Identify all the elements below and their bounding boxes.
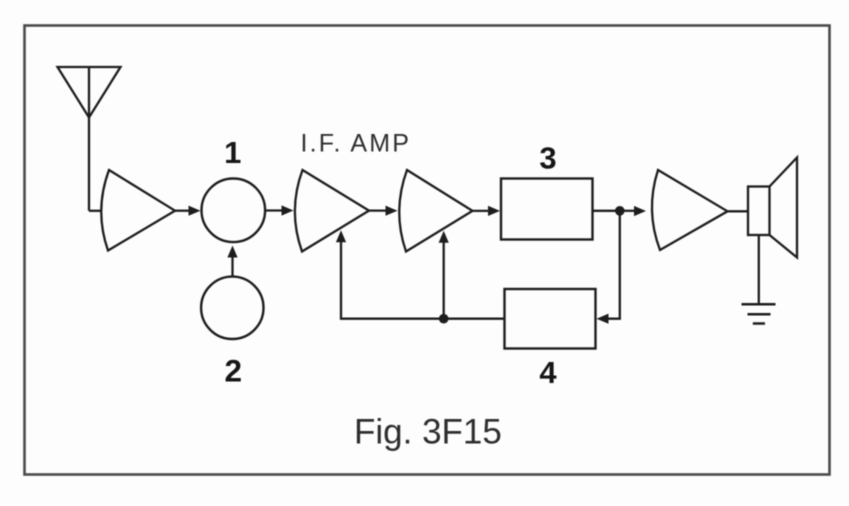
svg-text:4: 4 xyxy=(539,355,557,390)
RF amplifier xyxy=(101,170,175,251)
arrowhead up into IF amp2 xyxy=(439,231,449,243)
oscillator circle, node 2 xyxy=(201,277,263,339)
arrowhead up into IF amp1 xyxy=(336,230,346,242)
block 3 (detector) xyxy=(501,179,593,240)
IF amplifier 1 xyxy=(295,170,369,252)
IF amplifier 2 xyxy=(399,170,472,252)
feedback wire junction down to block4, arrowhead left xyxy=(597,211,620,324)
wire block3 to junction xyxy=(593,210,620,212)
wire IF amp1 to IF amp2, arrowhead xyxy=(369,206,398,216)
wire junction to audio amp, arrowhead xyxy=(620,206,646,216)
junction node dot xyxy=(615,206,625,216)
svg-text:I.F. AMP: I.F. AMP xyxy=(301,130,412,158)
svg-text:2: 2 xyxy=(225,353,243,389)
svg-text:Fig. 3F15: Fig. 3F15 xyxy=(354,413,502,452)
wire IF amp2 to block 3, arrowhead xyxy=(473,206,501,216)
speaker xyxy=(748,158,797,258)
wire speaker to ground xyxy=(758,235,760,303)
wire antenna to RF amp xyxy=(89,210,101,212)
mixer circle, node 1 xyxy=(202,179,266,243)
wire audio amp to speaker xyxy=(728,210,749,212)
svg-text:3: 3 xyxy=(539,141,556,176)
svg-text:1: 1 xyxy=(224,135,241,170)
audio amplifier xyxy=(652,170,728,250)
ground xyxy=(742,304,776,323)
antenna xyxy=(58,67,121,211)
wire junction up to IF amp2 xyxy=(443,240,445,319)
wire oscillator to mixer, arrow up xyxy=(227,246,237,277)
junction node dot on feedback line xyxy=(439,314,449,324)
wire RF amp to mixer, arrowhead xyxy=(175,206,201,216)
block 4 (AGC) xyxy=(505,289,596,349)
wire mixer to IF amp 1, arrowhead xyxy=(266,205,294,215)
feedback wire block4 to IF amps xyxy=(341,241,505,319)
